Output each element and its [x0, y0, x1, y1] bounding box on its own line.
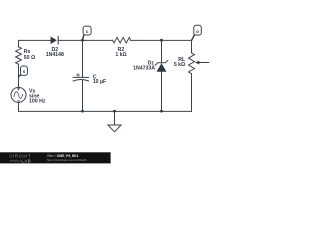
zener diode Dz — [155, 40, 168, 111]
svg-text:c: c — [86, 30, 89, 35]
resistor Rs — [16, 47, 22, 64]
node c flag — [82, 26, 91, 40]
diode D2 — [51, 37, 59, 45]
wire: Vs bottom to bottom rail — [18, 102, 20, 111]
node s flag — [19, 66, 28, 76]
voltage source Vs — [11, 87, 26, 102]
svg-text:http://circuitlab.com/c/c3be6b: http://circuitlab.com/c/c3be6b — [47, 158, 87, 162]
capacitor C — [73, 40, 88, 111]
svg-text:5 kΩ: 5 kΩ — [174, 62, 185, 68]
svg-text:1N4148: 1N4148 — [46, 52, 64, 58]
junction dot at capacitor bottom — [81, 110, 84, 113]
wire: node c to R2 — [83, 39, 113, 41]
junction dot at zener bottom — [160, 110, 163, 113]
junction dot at node c — [81, 39, 84, 42]
svg-text:50 Ω: 50 Ω — [24, 55, 35, 61]
wire: R2 to zener junction — [131, 39, 162, 41]
wire: node o corner down to RL — [191, 40, 193, 53]
CircuitLab watermark — [0, 152, 111, 163]
resistor R2 — [113, 37, 131, 43]
svg-text:100 Hz: 100 Hz — [29, 98, 46, 104]
wire: Rs to Vs source — [18, 64, 20, 87]
wire bottom rail — [19, 110, 192, 112]
svg-text:1N4733A: 1N4733A — [133, 66, 155, 72]
ground — [108, 111, 121, 132]
svg-text:o: o — [196, 30, 199, 35]
wire top rail: left corner to D2 anode — [19, 40, 51, 46]
svg-text:s: s — [23, 70, 26, 75]
node o flag — [192, 25, 201, 40]
svg-text:1 kΩ: 1 kΩ — [115, 52, 126, 58]
wire: zener junction to node o corner — [162, 39, 192, 41]
junction dot at zener top — [160, 39, 163, 42]
svg-text:LAB: LAB — [21, 158, 31, 163]
junction dot at ground — [113, 110, 116, 113]
wire: RL bottom down to bottom rail — [191, 74, 193, 112]
wire: D2 cathode to node c — [58, 39, 82, 41]
svg-text:10 µF: 10 µF — [93, 79, 106, 85]
resistor RL (with wiper arrow) — [189, 53, 209, 74]
